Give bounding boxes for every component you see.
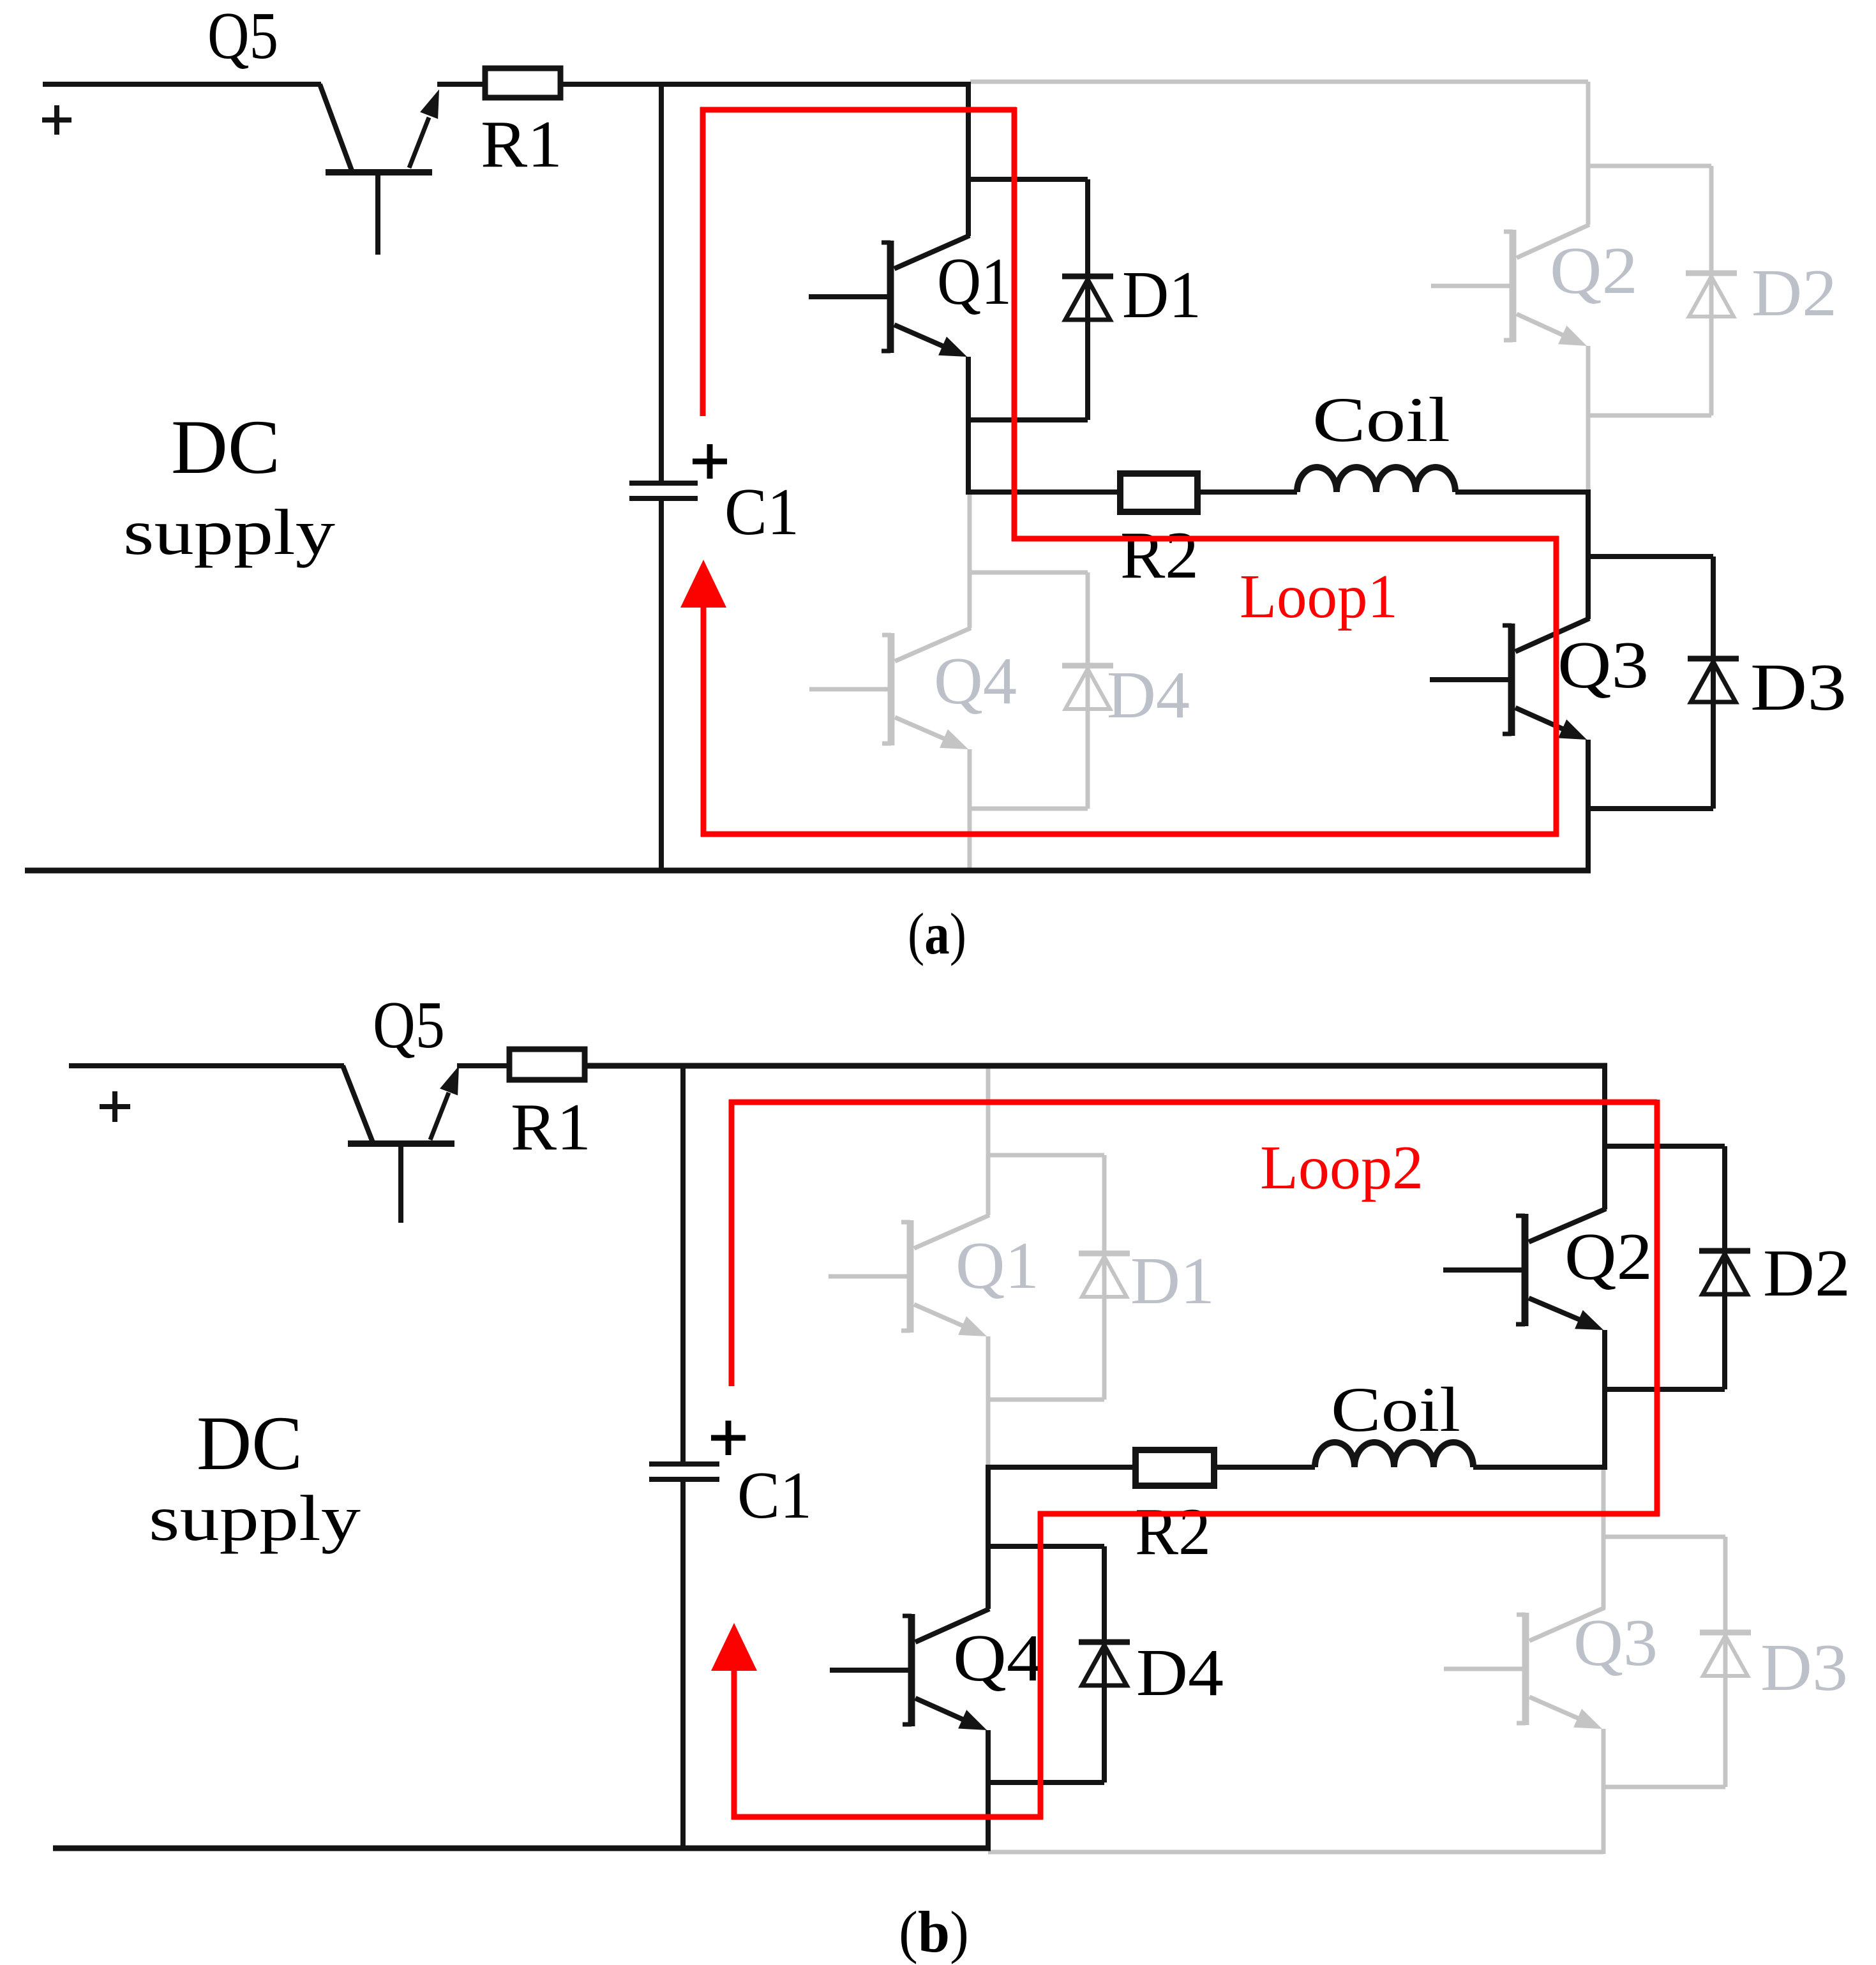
wire grey Q3-D3 top link (b) <box>1603 1535 1725 1539</box>
diode D3 (a) <box>1711 557 1716 809</box>
diode D1 (b, inactive) <box>1102 1155 1107 1400</box>
capacitor C1 (a) <box>629 481 698 486</box>
wire grey Q4 emitter (a) <box>968 749 972 870</box>
svg-text:Coil: Coil <box>1331 1374 1460 1445</box>
wire grey Q2-D2 bottom link (a) <box>1588 414 1711 418</box>
svg-text:R1: R1 <box>481 107 562 181</box>
svg-text:supply: supply <box>149 1483 361 1555</box>
svg-text:D3: D3 <box>1760 1630 1848 1705</box>
wire grey Q3-D3 bottom link (b) <box>1603 1785 1725 1789</box>
resistor R1 (b) <box>509 1049 585 1080</box>
loop1 mid horizontal segment <box>1012 536 1559 542</box>
wire Q2-D2 bottom link (b) <box>1605 1387 1725 1392</box>
svg-text:D1: D1 <box>1130 1243 1215 1318</box>
svg-text:Q2: Q2 <box>1550 233 1638 308</box>
loop1 arrow <box>680 560 726 608</box>
svg-text:Coil: Coil <box>1312 384 1450 455</box>
transistor Q3 (a, IGBT) <box>1430 677 1509 682</box>
loop1 bottom segment <box>701 832 1559 837</box>
wire coil to Q3 node (a) <box>1455 489 1591 495</box>
wire Q2 emitter (b) <box>1602 1330 1607 1470</box>
wire Q2-D2 top link (b) <box>1605 1144 1725 1149</box>
diode D3 (b, inactive) <box>1723 1537 1728 1787</box>
svg-text:Q4: Q4 <box>934 643 1017 718</box>
transistor Q5 (b) <box>343 1066 373 1142</box>
wire Q3-D3 top link (a) <box>1588 554 1713 559</box>
loop1 right segment <box>1554 536 1559 837</box>
wire DC bus upper (a) <box>659 82 664 483</box>
resistor R1 (a) <box>485 68 560 98</box>
svg-text:D2: D2 <box>1752 255 1837 330</box>
svg-text:C1: C1 <box>724 474 799 549</box>
wire DC bus upper (b) <box>680 1063 686 1464</box>
transistor Q1 (b, inactive IGBT) <box>829 1274 908 1279</box>
wire coil to Q2 node (b) <box>1473 1465 1607 1470</box>
svg-text:D4: D4 <box>1136 1635 1224 1710</box>
diode D4 (b) <box>1102 1546 1107 1782</box>
svg-text:Q2: Q2 <box>1565 1219 1653 1294</box>
wire grey Q1-D1 bottom link (b) <box>988 1398 1104 1402</box>
label + DC supply (b) <box>100 1104 130 1109</box>
wire grey bottom rail (b) <box>988 1850 1603 1855</box>
transistor Q5 (a) <box>320 84 352 170</box>
wire Q4 emitter (b) <box>986 1730 991 1851</box>
wire grey Q1 emitter (b) <box>986 1336 991 1467</box>
diode D2 (a, inactive) <box>1709 166 1714 415</box>
wire Q5 to R1 (a) <box>437 82 484 87</box>
svg-text:C1: C1 <box>737 1458 812 1532</box>
svg-text:D4: D4 <box>1107 657 1190 732</box>
wire Q4-D4 bottom link (b) <box>988 1780 1104 1785</box>
diode D2 (b) <box>1722 1146 1727 1389</box>
wire R1 to bridge (a) <box>560 82 971 87</box>
svg-text:(a): (a) <box>908 901 966 966</box>
wire grey Q4-D4 bottom link (a) <box>970 807 1088 811</box>
wire node to R2 (a) <box>968 489 1119 495</box>
svg-text:(b): (b) <box>899 1899 969 1964</box>
transistor Q1 (a, IGBT) <box>809 294 888 299</box>
wire bottom rail (b) <box>53 1846 991 1851</box>
inductor Coil (a) <box>1297 467 1455 492</box>
wire top rail left (a) <box>43 82 321 87</box>
svg-text:DC: DC <box>197 1401 303 1486</box>
svg-text:supply: supply <box>123 497 335 569</box>
svg-text:R2: R2 <box>1135 1494 1211 1569</box>
svg-text:DC: DC <box>171 405 280 490</box>
svg-text:D3: D3 <box>1750 650 1847 724</box>
svg-text:Q1: Q1 <box>956 1228 1039 1303</box>
wire Q4 collector (b) <box>986 1465 991 1609</box>
loop2 top segment <box>729 1100 1657 1105</box>
svg-text:D2: D2 <box>1763 1236 1850 1310</box>
wire R1 to Q2 (b) <box>585 1063 1607 1069</box>
loop2 right segment <box>1655 1100 1660 1516</box>
wire grey Q2 collector (a) <box>1586 82 1591 225</box>
svg-text:Q1: Q1 <box>937 244 1012 318</box>
svg-text:Loop2: Loop2 <box>1260 1133 1423 1202</box>
inductor Coil (b) <box>1315 1442 1473 1467</box>
wire grey top rail (a) <box>970 80 1588 84</box>
resistor R2 (a) <box>1120 474 1197 512</box>
loop1 left upper segment <box>700 107 706 416</box>
resistor R2 (b) <box>1136 1450 1214 1486</box>
wire grey Q2 emitter (a) <box>1586 346 1591 492</box>
loop2 mid vertical segment <box>1038 1511 1044 1819</box>
wire grey Q1-D1 top link (b) <box>988 1153 1104 1158</box>
loop2 arrow <box>711 1623 757 1671</box>
svg-text:Q4: Q4 <box>953 1620 1044 1695</box>
svg-text:Q5: Q5 <box>373 987 445 1062</box>
loop1 top segment <box>700 107 1016 113</box>
label + C1 (a) <box>693 459 727 465</box>
transistor Q2 (a, inactive IGBT) <box>1431 284 1510 288</box>
wire Q1-D1 top link (a) <box>968 177 1088 182</box>
svg-text:R1: R1 <box>511 1089 591 1164</box>
wire Q1 emitter (a) <box>966 357 971 495</box>
svg-text:D1: D1 <box>1122 257 1201 332</box>
capacitor C1 (b) <box>649 1461 719 1467</box>
transistor Q4 (a, inactive IGBT) <box>809 687 889 692</box>
svg-text:Q3: Q3 <box>1573 1605 1658 1680</box>
wire bottom rail (a) <box>25 868 1591 874</box>
diode D1 (a) <box>1085 179 1090 420</box>
svg-text:Q3: Q3 <box>1557 627 1649 702</box>
wire Q4-D4 top link (b) <box>988 1544 1104 1549</box>
loop2 bottom segment <box>732 1814 1043 1820</box>
svg-text:Q5: Q5 <box>207 0 278 73</box>
wire Q1 collector (a) <box>966 82 971 236</box>
transistor Q3 (b, inactive IGBT) <box>1444 1667 1523 1671</box>
wire grey Q4-D4 top link (a) <box>970 571 1088 575</box>
wire grey Q3 collector (b) <box>1602 1467 1606 1609</box>
loop2 mid horizontal segment <box>1038 1511 1660 1517</box>
transistor Q4 (b, IGBT) <box>830 1668 909 1673</box>
label + DC supply (a) <box>42 117 71 123</box>
wire DC bus lower (b) <box>680 1479 686 1851</box>
wire R2 to coil (b) <box>1214 1465 1315 1470</box>
wire R2 to coil (a) <box>1197 489 1297 495</box>
transistor Q2 (b, IGBT) <box>1443 1267 1522 1273</box>
wire top rail left (b) <box>69 1063 344 1068</box>
wire Q5 to R1 (b) <box>457 1063 508 1068</box>
wire grey Q1 collector (b) <box>986 1063 991 1215</box>
wire Q3-D3 bottom link (a) <box>1588 806 1713 811</box>
wire Q1-D1 bottom link (a) <box>968 417 1088 422</box>
wire node to R2 (b) <box>988 1465 1134 1470</box>
wire DC bus lower (a) <box>659 498 664 873</box>
wire Q3 collector (a) <box>1586 489 1591 619</box>
wire Q2 collector (b) <box>1602 1063 1607 1209</box>
loop2 left upper segment <box>729 1100 735 1386</box>
wire grey Q2-D2 top link (a) <box>1588 164 1711 168</box>
label + C1 (b) <box>711 1435 746 1441</box>
svg-text:R2: R2 <box>1120 518 1199 592</box>
loop1 mid vertical segment <box>1012 107 1017 541</box>
wire grey Q3 emitter (b) <box>1602 1729 1606 1854</box>
svg-text:Loop1: Loop1 <box>1240 562 1398 631</box>
wire grey Q4 collector (a) <box>968 492 972 628</box>
diode D4 (a, inactive) <box>1086 572 1090 809</box>
wire Q3 emitter (a) <box>1586 740 1591 873</box>
